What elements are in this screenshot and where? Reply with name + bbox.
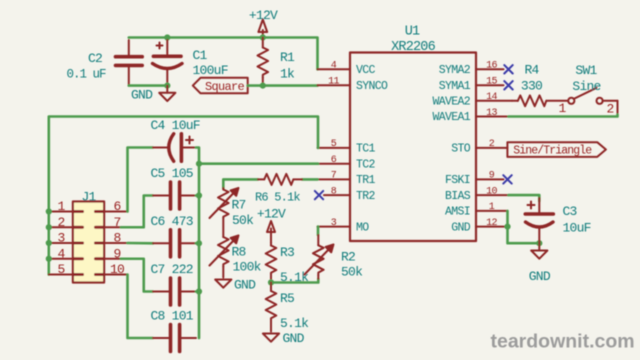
resistor R1 <box>258 38 269 86</box>
svg-text:teardownit.com: teardownit.com <box>491 331 635 353</box>
ground (C1/C2) <box>159 86 175 101</box>
svg-text:R7: R7 <box>232 198 246 213</box>
svg-text:6: 6 <box>113 199 120 214</box>
svg-text:0.1 uF: 0.1 uF <box>67 67 107 81</box>
svg-text:100k: 100k <box>233 260 262 275</box>
svg-text:330: 330 <box>521 79 542 94</box>
ground (R8) <box>215 280 231 288</box>
svg-text:XR2206: XR2206 <box>391 40 436 55</box>
svg-text:4: 4 <box>57 246 65 261</box>
svg-text:R8: R8 <box>232 245 246 260</box>
svg-text:15: 15 <box>486 77 497 88</box>
svg-text:C5 105: C5 105 <box>151 166 193 181</box>
svg-text:Sine: Sine <box>572 79 600 94</box>
resistor R6 <box>258 174 302 185</box>
svg-text:STO: STO <box>451 143 471 156</box>
pin 4 VCC <box>318 68 351 70</box>
wire C2 bottom to C1 bottom <box>129 84 168 87</box>
svg-text:R2: R2 <box>341 250 355 265</box>
svg-text:12: 12 <box>486 218 497 229</box>
svg-text:7: 7 <box>113 215 120 230</box>
svg-text:J1: J1 <box>81 189 96 204</box>
svg-text:MO: MO <box>356 221 369 234</box>
ground (R5) <box>263 334 279 342</box>
resistor R3 <box>266 243 277 283</box>
pin 6 TC2 <box>318 163 351 165</box>
no-connect X pin 9 <box>503 175 511 183</box>
svg-text:GND: GND <box>451 221 471 234</box>
connector J1 body <box>73 202 104 283</box>
pin 3 MO <box>318 226 351 228</box>
node junction R1 bottom <box>260 83 266 89</box>
no-connect X pin 16 <box>504 65 512 73</box>
capacitor C6 <box>153 242 196 244</box>
capacitor C4 <box>153 137 196 148</box>
pin 10 J1 <box>104 274 127 276</box>
capacitor C3 <box>528 198 540 243</box>
pin 8 TR2 <box>324 194 350 196</box>
svg-text:2: 2 <box>606 102 613 117</box>
pin 2 STO <box>476 147 507 149</box>
svg-text:Square: Square <box>205 80 245 94</box>
svg-text:C8 101: C8 101 <box>151 309 194 324</box>
svg-text:+12V: +12V <box>249 8 278 23</box>
svg-text:C1: C1 <box>193 48 208 63</box>
svg-text:+12V: +12V <box>257 206 286 221</box>
power +12V (top) <box>258 20 267 38</box>
svg-text:C7 222: C7 222 <box>151 262 193 277</box>
wire switch to WAVEA1 <box>509 115 618 117</box>
svg-text:100uF: 100uF <box>193 63 228 78</box>
op-amp U1 XR2206 body <box>350 53 476 242</box>
svg-text:TR1: TR1 <box>356 174 376 187</box>
node junction pin12 <box>504 224 510 230</box>
svg-text:10uF: 10uF <box>563 221 591 236</box>
svg-text:16: 16 <box>486 61 497 72</box>
resistor R7 (variable) <box>210 188 239 237</box>
label Sine/Triangle <box>507 142 606 157</box>
pin 10 BIAS <box>476 194 509 196</box>
svg-text:13: 13 <box>486 108 497 119</box>
wire J1 pin9 to C7 <box>121 259 153 292</box>
svg-text:8: 8 <box>113 231 120 246</box>
svg-text:1: 1 <box>489 202 495 213</box>
svg-text:TC2: TC2 <box>356 158 376 171</box>
pin 3 J1 <box>49 242 73 244</box>
pin 15 SYMA1 <box>476 84 504 86</box>
capacitor C5 <box>153 195 196 197</box>
wire TC2 branch <box>199 162 318 165</box>
svg-text:Sine/Triangle: Sine/Triangle <box>513 145 592 158</box>
svg-text:GND: GND <box>283 331 305 346</box>
svg-text:2: 2 <box>489 139 495 150</box>
node junction R1 top <box>260 34 266 40</box>
svg-text:1k: 1k <box>280 67 295 82</box>
svg-text:C6 473: C6 473 <box>151 214 193 229</box>
svg-text:R6 5.1k: R6 5.1k <box>255 191 300 205</box>
svg-text:FSKI: FSKI <box>445 174 470 187</box>
wire R3 junction to R2 <box>271 279 318 283</box>
svg-text:GND: GND <box>234 278 256 293</box>
resistor R5 <box>266 283 277 332</box>
power +12V (mid) <box>267 221 275 243</box>
svg-text:5: 5 <box>57 262 64 277</box>
node junction TC2 <box>196 161 202 167</box>
pin 2 J1 <box>49 226 73 228</box>
wire AMSI down <box>508 211 540 243</box>
svg-text:9: 9 <box>489 171 495 182</box>
svg-text:3: 3 <box>57 231 64 246</box>
svg-text:50k: 50k <box>341 265 363 280</box>
pin 8 J1 <box>104 242 127 244</box>
wire BIAS to C3 <box>509 195 540 201</box>
pin 11 SYNCO <box>318 84 351 86</box>
capacitor C2 <box>128 40 130 86</box>
svg-text:GND: GND <box>131 88 153 103</box>
svg-text:50k: 50k <box>232 213 254 228</box>
no-connect X pin 8 <box>315 191 323 199</box>
node junction C1 bottom <box>164 83 170 89</box>
wire Square to SYNCO <box>248 84 318 87</box>
svg-text:R5: R5 <box>280 291 294 306</box>
pin 14 WAVEA2 <box>476 100 512 102</box>
svg-text:WAVEA1: WAVEA1 <box>432 111 470 124</box>
svg-text:10: 10 <box>110 262 124 277</box>
svg-text:C2: C2 <box>88 51 102 66</box>
wire J1 pin6 to C4 <box>128 148 154 212</box>
svg-text:SYNCO: SYNCO <box>356 80 388 93</box>
resistor R4 <box>512 95 568 106</box>
svg-text:BIAS: BIAS <box>445 190 471 203</box>
wire J1 pin7 to C5 <box>121 196 153 228</box>
node junction C3 bottom <box>536 240 542 246</box>
svg-text:7: 7 <box>331 171 337 182</box>
svg-text:5: 5 <box>331 139 337 150</box>
pin 1 AMSI <box>476 210 508 212</box>
no-connect X pin 15 <box>504 81 512 89</box>
svg-text:3: 3 <box>331 218 337 229</box>
pin 6 J1 <box>104 211 127 213</box>
pin 9 FSKI <box>476 178 504 180</box>
resistor R8 (variable) <box>210 235 239 277</box>
wire C4 to TC2 rail <box>196 148 199 339</box>
svg-text:TC1: TC1 <box>356 143 376 156</box>
svg-text:14: 14 <box>486 92 497 103</box>
svg-text:SYMA1: SYMA1 <box>439 80 471 93</box>
svg-text:R3: R3 <box>280 245 294 260</box>
pin 9 J1 <box>104 258 121 260</box>
svg-text:2: 2 <box>57 215 64 230</box>
wire top rail <box>129 38 318 70</box>
svg-text:TR2: TR2 <box>356 190 376 203</box>
pin 13 WAVEA1 <box>476 116 509 118</box>
svg-text:SYMA2: SYMA2 <box>439 64 471 77</box>
capacitor C7 <box>153 291 196 293</box>
pin 5 TC1 <box>318 147 351 149</box>
svg-text:10: 10 <box>486 186 497 197</box>
pin 7 J1 <box>104 226 121 228</box>
ground (C3) <box>531 243 547 259</box>
svg-text:WAVEA2: WAVEA2 <box>432 96 470 109</box>
label Square <box>193 78 248 94</box>
node junction R3/R5 <box>268 279 274 285</box>
wire J1 pin8 to C6 <box>128 242 154 245</box>
wire TR1 row <box>223 179 258 188</box>
svg-text:VCC: VCC <box>356 64 376 77</box>
svg-text:C3: C3 <box>563 204 577 219</box>
svg-text:C4 10uF: C4 10uF <box>151 118 200 133</box>
svg-text:SW1: SW1 <box>575 63 597 78</box>
pin 5 J1 <box>49 274 73 276</box>
pin 12 GND <box>476 226 508 228</box>
resistor R2 (variable) <box>317 227 320 235</box>
wire J1 pin10 to C8 <box>128 275 154 339</box>
node junction C1 top <box>164 34 170 40</box>
svg-text:U1: U1 <box>405 25 420 40</box>
capacitor C8 <box>153 337 196 339</box>
svg-text:5.1k: 5.1k <box>280 316 309 331</box>
svg-text:R1: R1 <box>280 50 295 65</box>
svg-text:R4: R4 <box>524 63 539 78</box>
svg-text:9: 9 <box>113 246 120 261</box>
pin 7 TR1 <box>318 178 351 180</box>
capacitor C1 <box>157 40 168 86</box>
pin 16 SYMA2 <box>476 68 504 70</box>
svg-text:GND: GND <box>529 269 551 284</box>
svg-text:AMSI: AMSI <box>445 206 470 219</box>
switch SW1 <box>568 88 617 115</box>
svg-text:8: 8 <box>331 186 337 197</box>
wire J1 common to TC1 <box>49 117 318 275</box>
svg-text:6: 6 <box>331 155 337 166</box>
svg-text:4: 4 <box>331 61 337 72</box>
pin 1 J1 <box>49 211 73 213</box>
pin 4 J1 <box>49 258 73 260</box>
svg-text:1: 1 <box>558 101 566 116</box>
svg-text:11: 11 <box>328 77 339 88</box>
svg-text:1: 1 <box>57 199 65 214</box>
